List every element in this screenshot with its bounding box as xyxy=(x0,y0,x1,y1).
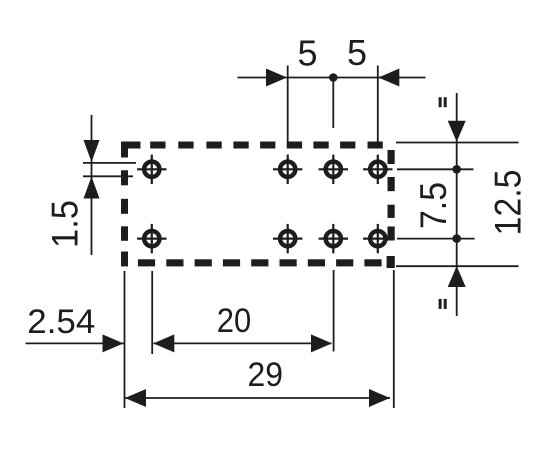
dim 5-5 line xyxy=(238,77,426,79)
outline top-left corner dash xyxy=(121,142,141,149)
svg-text:5: 5 xyxy=(347,32,367,73)
dim 1.5 extension line upper xyxy=(83,162,136,164)
dim 7.5 bottom dot xyxy=(452,234,461,243)
dim right vertical line xyxy=(456,93,458,316)
dim 2.54 line xyxy=(26,342,125,344)
dim 1.5 line xyxy=(91,115,93,255)
extension line pin column 3 xyxy=(333,270,335,352)
extension line pin row top xyxy=(397,168,474,170)
outline bottom-left corner dash xyxy=(121,252,128,267)
outline top edge dashes xyxy=(150,142,165,149)
dim 29 line xyxy=(125,397,390,399)
dim 12.5 top arrow xyxy=(448,121,466,142)
dim 5-5 extension line right xyxy=(377,66,379,149)
outline left edge dashes xyxy=(121,170,128,185)
dim 5-5 center dot xyxy=(329,73,338,82)
pin hole B3 xyxy=(319,224,348,253)
outline bottom-right corner dash xyxy=(387,256,395,268)
pin hole A3 xyxy=(319,155,348,184)
svg-text:5: 5 xyxy=(297,33,317,74)
extension line pin row bottom xyxy=(397,238,475,240)
extension line body top edge xyxy=(396,142,519,144)
equality mark top xyxy=(439,97,442,107)
dim 2.54 arrow xyxy=(103,334,124,352)
svg-text:29: 29 xyxy=(248,356,284,394)
svg-text:1.5: 1.5 xyxy=(44,200,85,248)
svg-text:7.5: 7.5 xyxy=(413,182,454,229)
svg-text:2.54: 2.54 xyxy=(27,303,95,341)
pin hole A4 xyxy=(363,155,392,184)
svg-text:20: 20 xyxy=(217,302,252,340)
pin hole A1 xyxy=(137,155,166,184)
equality mark bottom xyxy=(439,299,442,309)
pin hole B2 xyxy=(273,224,302,253)
dim 20 line xyxy=(154,342,332,344)
dim 5-5 right arrow xyxy=(378,69,399,87)
extension line outline right xyxy=(393,270,395,408)
extension line outline left xyxy=(124,271,126,408)
dim 7.5 top dot xyxy=(452,165,461,174)
dim 20 right arrow xyxy=(311,334,332,352)
pin hole B1 xyxy=(137,224,166,253)
dim 5-5 extension line left xyxy=(287,66,289,149)
dim 1.5 extension line lower xyxy=(83,175,133,177)
extension line pin column 1 xyxy=(151,271,153,354)
svg-text:12.5: 12.5 xyxy=(488,170,529,236)
outline right edge dashes xyxy=(388,150,395,164)
dim 1.5 lower arrow xyxy=(84,177,100,199)
pin hole A2 xyxy=(273,155,302,184)
dim 29 left arrow xyxy=(125,389,146,407)
dim 29 right arrow xyxy=(369,389,390,407)
dim 5-5 extension line center xyxy=(332,78,334,129)
pin hole B4 xyxy=(363,224,392,253)
extension line body bottom edge xyxy=(396,265,519,267)
outline bottom edge dashes xyxy=(138,259,155,266)
dim 1.5 upper arrow xyxy=(84,140,100,162)
dim 12.5 bottom arrow xyxy=(448,266,466,287)
dim 5-5 left arrow xyxy=(266,69,287,87)
dim 20 left arrow xyxy=(153,334,174,352)
